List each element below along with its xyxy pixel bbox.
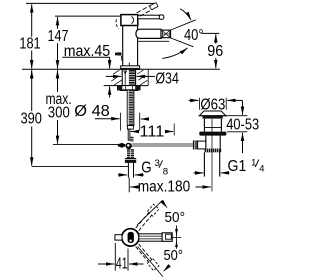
dimension 390 xyxy=(20,70,42,166)
top view: left stub xyxy=(115,235,122,240)
top view: dashed lever rotated down 50° xyxy=(136,244,183,277)
svg-text:Ø 48: Ø 48 xyxy=(74,103,110,120)
dimension 147 xyxy=(48,17,69,69)
threaded fixing rod xyxy=(127,90,134,129)
svg-text:96: 96 xyxy=(207,43,223,60)
dimension Ø63 xyxy=(189,97,243,114)
wire: under-spout line xyxy=(138,40,169,42)
pop-up rod left segment xyxy=(118,143,126,148)
dimension max.300 xyxy=(45,70,71,144)
pop-up rod to waste xyxy=(132,144,193,146)
mounting shank through deck xyxy=(122,69,135,85)
dimension 41 xyxy=(98,243,144,273)
max.180 left extension xyxy=(128,178,130,193)
faucet body xyxy=(123,26,138,67)
svg-text:Ø34: Ø34 xyxy=(155,70,179,87)
waste centerline / max.180 right extension xyxy=(211,119,213,192)
dimension 96 xyxy=(202,33,224,68)
svg-text:50°: 50° xyxy=(164,247,184,264)
pop-up waste: rod coupling port xyxy=(193,140,206,149)
svg-text:41: 41 xyxy=(116,256,128,273)
svg-text:300: 300 xyxy=(48,104,70,121)
deck bottom line xyxy=(104,85,149,87)
wire: 181 top reference line xyxy=(26,2,156,4)
pop-up waste: dome xyxy=(199,111,227,119)
dimension 40 degree swivel fan xyxy=(162,9,203,59)
lever handle raised (dashed) xyxy=(116,3,158,29)
dimension G1 1/4 xyxy=(194,157,266,174)
pop-up waste: lower body xyxy=(206,136,220,149)
dimension max.45 xyxy=(62,43,110,98)
wire: 390 reference line xyxy=(32,165,129,167)
dimension 40-53 xyxy=(226,100,259,153)
pop-up waste: tail pipe xyxy=(204,152,219,176)
lever handle (horizontal) xyxy=(138,15,164,19)
svg-text:G1: G1 xyxy=(228,158,247,175)
svg-text:max.180: max.180 xyxy=(138,178,190,195)
deck right edge xyxy=(147,69,149,85)
dimension Ø48 xyxy=(74,103,148,130)
svg-text:390: 390 xyxy=(20,111,42,128)
faucet cap xyxy=(121,15,138,26)
faucet base flange xyxy=(121,62,140,69)
svg-text:181: 181 xyxy=(19,36,40,53)
pop-up waste: upper body xyxy=(204,119,221,132)
pop-up waste: flange xyxy=(199,132,226,136)
dimension 111 xyxy=(131,124,174,141)
svg-text:4: 4 xyxy=(259,164,265,175)
dimension Ø34 xyxy=(106,70,180,87)
top view: slot xyxy=(128,232,134,243)
dimension 181 xyxy=(19,4,40,68)
mounting nut xyxy=(118,86,141,91)
top view: lever thickness mini-dimension xyxy=(172,226,181,249)
flexible hose braid xyxy=(127,149,134,158)
svg-text:40°: 40° xyxy=(184,27,204,44)
pop-up rod knob xyxy=(115,52,122,60)
G3/8 pipe xyxy=(128,163,133,178)
top view: dashed lever rotated up 50° xyxy=(136,200,185,230)
svg-text:50°: 50° xyxy=(165,209,186,226)
aerator xyxy=(161,30,171,38)
deck hatching xyxy=(111,70,147,85)
svg-text:Ø63: Ø63 xyxy=(200,97,225,114)
top view: pivot circle xyxy=(122,229,139,246)
pop-up waste: thread band xyxy=(205,149,222,153)
svg-text:8: 8 xyxy=(163,167,168,178)
top view: lever end cap xyxy=(162,233,172,242)
dimension max.180 xyxy=(130,178,211,195)
dimension G3/8 xyxy=(118,158,168,178)
svg-text:40-53: 40-53 xyxy=(226,117,259,134)
G3/8 hose nut xyxy=(125,158,136,163)
top view: lever bar xyxy=(139,234,163,241)
svg-text:111: 111 xyxy=(140,124,165,141)
ball joint xyxy=(126,143,132,149)
deck top line xyxy=(22,68,220,70)
spout xyxy=(136,29,161,38)
pop-up rod pipe below rod xyxy=(128,129,133,141)
wire: 147 top reference line xyxy=(55,15,121,17)
wire: max.300 reference / rod line left xyxy=(53,144,118,146)
svg-text:G: G xyxy=(141,160,151,177)
